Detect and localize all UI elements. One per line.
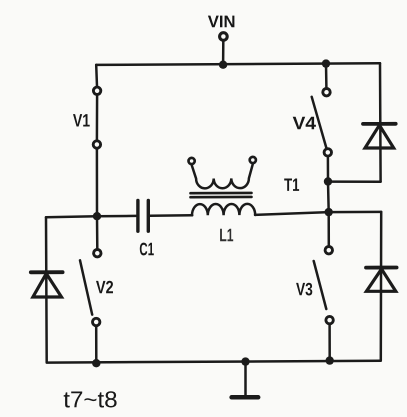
junction right mid rail — [325, 208, 333, 216]
switch V4 blade (open) — [312, 97, 327, 148]
wire V3 stem top — [327, 212, 330, 246]
wire left vertical — [45, 217, 48, 362]
node VIN label — [208, 16, 235, 28]
wire left branch link — [46, 216, 97, 217]
wire V4 stem top — [325, 64, 328, 88]
wire V2 to bottom rail — [95, 327, 98, 363]
junction left mid rail — [93, 212, 101, 220]
wire V1 to mid junction — [96, 149, 99, 216]
terminal T1 secondary right — [250, 157, 256, 163]
switch V4 bottom contact — [324, 149, 331, 156]
label V4 — [293, 117, 316, 129]
switch V2 bottom contact — [93, 318, 100, 325]
label C1 — [140, 243, 154, 256]
junction VIN on top rail — [219, 60, 227, 68]
diode left cathode bar — [31, 270, 63, 274]
ground — [232, 362, 259, 398]
switch V3 bottom contact — [326, 316, 333, 323]
diode left triangle — [33, 274, 62, 297]
capacitor C1 — [138, 201, 148, 232]
junction T1 node — [324, 177, 332, 185]
terminal T1 secondary left — [189, 158, 195, 164]
wire V4 to T1 junction — [327, 157, 330, 182]
label V3 — [296, 283, 312, 296]
junction V2 bottom — [92, 359, 100, 367]
switch V1 top contact — [93, 87, 100, 94]
junction V4 on top rail — [322, 59, 330, 67]
wire V3 to bottom rail — [328, 325, 331, 361]
wire VIN stem — [222, 41, 225, 64]
terminal VIN — [220, 33, 228, 41]
wire left vertical upper — [95, 65, 98, 86]
junction V3 bottom — [326, 356, 334, 364]
switch V3 top contact — [325, 247, 332, 254]
junction ground on bottom rail — [241, 357, 249, 365]
inductor L1 primary winding — [192, 204, 255, 216]
diode lower right triangle — [366, 269, 395, 291]
switch V4 top contact — [323, 89, 330, 96]
switch V1 blade (closed) — [96, 95, 99, 140]
wire right vertical lower — [380, 212, 383, 361]
label t7~t8 — [64, 391, 117, 407]
wire V2 stem top — [96, 216, 99, 248]
transformer T1 core — [191, 193, 252, 197]
wire top rail — [96, 63, 380, 65]
wire capacitor to L1 — [150, 214, 192, 217]
switch V2 top contact — [94, 250, 101, 257]
label L1 — [220, 229, 233, 241]
wire T1 node to right branch — [328, 180, 381, 183]
switch V2 blade (open) — [80, 260, 92, 314]
wire right vertical upper — [379, 63, 382, 182]
label V2 — [96, 281, 113, 294]
diode upper right cathode bar — [363, 122, 396, 126]
diode lower right cathode bar — [366, 266, 397, 270]
wire bottom rail — [47, 361, 381, 363]
diode upper right triangle — [365, 125, 394, 148]
label T1 — [284, 179, 299, 191]
wire mid rail to capacitor — [97, 215, 136, 218]
label V1 — [73, 114, 90, 126]
wire mid rail right — [255, 212, 329, 215]
transformer T1 secondary winding — [192, 164, 253, 188]
switch V1 bottom contact — [93, 141, 100, 148]
wire lower right link — [329, 211, 382, 214]
switch V3 blade (open) — [314, 261, 327, 309]
wire T1 node down to mid rail — [327, 182, 330, 213]
